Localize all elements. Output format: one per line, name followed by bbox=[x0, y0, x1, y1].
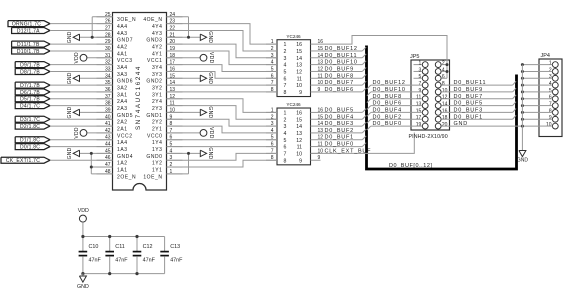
wire D5/1.7B to U1 bbox=[50, 98, 113, 100]
JP4 pin 2 bbox=[552, 69, 558, 75]
capacitor C11 bbox=[109, 237, 111, 252]
wire capacitor bottom rail bbox=[83, 273, 165, 275]
svg-text:2: 2 bbox=[271, 46, 274, 52]
RN2 pin 8 stub bbox=[266, 159, 277, 161]
svg-text:D0_BUF11: D0_BUF11 bbox=[325, 53, 358, 59]
wire VDD to capacitor rail bbox=[82, 222, 84, 236]
wire net D0_BUF2 from RN2 to bus bbox=[321, 132, 363, 134]
U1 pin 37 stub bbox=[97, 98, 113, 100]
svg-text:4A3: 4A3 bbox=[117, 31, 128, 37]
svg-text:D0_BUF8: D0_BUF8 bbox=[373, 94, 402, 100]
svg-text:D0_BUF6: D0_BUF6 bbox=[325, 87, 354, 93]
wire JP4 pin 9 to ground rail bbox=[522, 118, 539, 120]
wire ORNG/1.7C to U1 bbox=[50, 23, 113, 25]
RN1 pin 1 stub bbox=[266, 43, 277, 45]
U1 pin 32 stub bbox=[97, 64, 113, 66]
power VDD at U1 pin 42 bbox=[87, 132, 113, 134]
bus entry D0_BUF9 bbox=[513, 88, 517, 92]
svg-text:D10/1.7B: D10/1.7B bbox=[17, 49, 40, 55]
svg-text:1Y1: 1Y1 bbox=[152, 167, 163, 173]
capacitor C13 bbox=[164, 237, 166, 252]
svg-text:VDD: VDD bbox=[208, 127, 214, 139]
JP5 pin 2 bbox=[435, 62, 441, 68]
svg-text:D0_BUF10: D0_BUF10 bbox=[325, 60, 358, 66]
flag D5/1.7B bbox=[15, 96, 50, 102]
svg-text:2A4: 2A4 bbox=[117, 99, 128, 105]
JP5 pin 15 bbox=[422, 110, 428, 116]
U1 pin 35 stub bbox=[97, 84, 113, 86]
RN1 pin 4 stub bbox=[266, 64, 277, 66]
svg-text:4Y4: 4Y4 bbox=[152, 24, 163, 30]
U1 pin 40 stub bbox=[97, 118, 113, 120]
U1 pin 23 stub bbox=[167, 23, 183, 25]
svg-text:2: 2 bbox=[284, 49, 287, 55]
svg-text:16: 16 bbox=[296, 111, 302, 117]
node junction top rail C10 bbox=[81, 235, 84, 238]
svg-text:VDD: VDD bbox=[208, 52, 214, 64]
RN1 pin 2 stub bbox=[266, 50, 277, 52]
svg-text:47nF: 47nF bbox=[115, 257, 128, 263]
svg-text:GND1: GND1 bbox=[146, 113, 162, 119]
svg-text:JP5: JP5 bbox=[410, 54, 419, 60]
bus entry D0_BUF3 bbox=[513, 109, 517, 113]
svg-text:14: 14 bbox=[442, 101, 448, 107]
wire U1 pin 6 to RN2 pin 5 bbox=[167, 139, 278, 141]
svg-text:16: 16 bbox=[442, 108, 448, 114]
wire U1 pin 12 to RN2 pin 1 bbox=[167, 99, 278, 113]
svg-text:3Y4: 3Y4 bbox=[152, 65, 163, 71]
wire U1 pin 14 to RN1 pin 7 bbox=[167, 84, 278, 86]
wire GND to U1 pins 47 and 48 bbox=[90, 153, 92, 173]
svg-text:1: 1 bbox=[271, 39, 274, 45]
svg-text:1: 1 bbox=[284, 111, 287, 117]
svg-text:15: 15 bbox=[296, 117, 302, 123]
svg-text:8: 8 bbox=[271, 87, 274, 93]
JP5 pin 20 bbox=[435, 123, 441, 129]
RN1 pin 9 stub bbox=[311, 91, 321, 93]
wire U1 pin 17 to RN1 pin 5 bbox=[167, 65, 278, 72]
bus entry D0_BUF5 bbox=[513, 102, 517, 106]
flag D9/1.7B bbox=[15, 62, 50, 68]
svg-text:YC246: YC246 bbox=[286, 34, 301, 39]
svg-text:VDD: VDD bbox=[74, 52, 80, 64]
U1 pin 4 stub bbox=[167, 152, 183, 154]
JP4 pin 4 bbox=[552, 82, 558, 88]
JP4 pin 5 bbox=[552, 89, 558, 95]
wire net D0_BUF10 bus to JP5 pin 9 bbox=[371, 91, 422, 93]
bus entry D0_BUF9 bbox=[362, 68, 366, 72]
svg-text:12: 12 bbox=[296, 138, 302, 144]
svg-text:6: 6 bbox=[442, 74, 445, 80]
svg-text:GND4: GND4 bbox=[117, 154, 133, 160]
U1 pin 1 stub bbox=[167, 173, 183, 175]
JP5 pin 16 bbox=[435, 110, 441, 116]
svg-text:D9/1.7B: D9/1.7B bbox=[20, 63, 40, 69]
bus entry D0_BUF8 bbox=[362, 74, 366, 78]
wire U1 pin 3 to RN2 pin 7 bbox=[167, 153, 278, 160]
U1 pin 5 stub bbox=[167, 146, 183, 148]
svg-text:47nF: 47nF bbox=[170, 257, 183, 263]
svg-text:D0_BUF4: D0_BUF4 bbox=[325, 114, 354, 120]
capacitor C12 bbox=[136, 237, 138, 252]
RN1 pin 12 stub bbox=[311, 70, 321, 72]
JP5 pin 1 bbox=[422, 62, 428, 68]
wire D10/1.7B to U1 bbox=[50, 50, 113, 52]
svg-text:4: 4 bbox=[271, 128, 274, 134]
U1 pin 30 stub bbox=[97, 50, 113, 52]
wire JP4 pin 7 to ground rail bbox=[522, 105, 539, 107]
power VDD at U1 pin 7 bbox=[167, 132, 201, 134]
svg-text:D0_BUF4: D0_BUF4 bbox=[373, 107, 402, 113]
svg-text:GND: GND bbox=[67, 31, 73, 43]
svg-text:9: 9 bbox=[318, 87, 321, 93]
wire JP4 pin 4 to ground rail bbox=[522, 84, 539, 86]
wire net D0_BUF9 JP5 pin 10 to bus bbox=[441, 91, 512, 93]
JP4 pin 1 bbox=[552, 62, 558, 68]
wire JP4 ground rail bbox=[521, 65, 523, 151]
bus entry D0_BUF1 bbox=[362, 136, 366, 140]
wire net GND JP5 pin 20 to JP4 ground rail bbox=[441, 125, 522, 127]
JP5 pin 13 bbox=[422, 103, 428, 109]
RN2 pin 11 stub bbox=[311, 146, 321, 148]
svg-text:5: 5 bbox=[284, 138, 287, 144]
wire JP4 pin 3 to ground rail bbox=[522, 77, 539, 79]
node junction JP4 pin 1 bbox=[521, 63, 524, 66]
U1 pin 39 stub bbox=[97, 111, 113, 113]
flag D0/1.8C bbox=[15, 144, 50, 150]
svg-text:GND0: GND0 bbox=[146, 154, 162, 160]
svg-text:1: 1 bbox=[284, 42, 287, 48]
svg-text:3: 3 bbox=[271, 53, 274, 59]
wire D8/1.7B to U1 bbox=[50, 70, 113, 72]
U1 pin 15 stub bbox=[167, 77, 183, 79]
svg-text:VCC3: VCC3 bbox=[117, 58, 133, 64]
U1 pin 48 stub bbox=[97, 173, 113, 175]
U1 pin 18 stub bbox=[167, 57, 183, 59]
svg-text:8: 8 bbox=[549, 108, 552, 114]
svg-text:VCC0: VCC0 bbox=[147, 133, 163, 139]
flag D1/1.8C bbox=[15, 137, 50, 143]
svg-text:13: 13 bbox=[416, 101, 422, 107]
svg-text:GND: GND bbox=[207, 72, 213, 84]
wire D1/1.8C to U1 bbox=[50, 139, 113, 141]
bus exit D0_BUF4 bbox=[367, 112, 371, 116]
svg-text:1OE_N: 1OE_N bbox=[143, 174, 162, 180]
svg-text:2: 2 bbox=[549, 67, 552, 73]
svg-text:D11/1.7B: D11/1.7B bbox=[17, 42, 40, 48]
svg-text:D0_BUF1: D0_BUF1 bbox=[454, 114, 483, 120]
ground GND at U1 pin 39 bbox=[80, 111, 113, 113]
svg-text:14: 14 bbox=[296, 124, 302, 130]
RN1 pin 14 stub bbox=[311, 57, 321, 59]
wire net D0_BUF10 from RN1 to bus bbox=[321, 64, 363, 66]
svg-text:4A2: 4A2 bbox=[117, 45, 128, 51]
svg-text:VDD: VDD bbox=[78, 208, 89, 214]
power VDD at U1 pin 31 bbox=[87, 57, 113, 59]
svg-text:D0_BUF[0..12]: D0_BUF[0..12] bbox=[389, 163, 433, 169]
U1 pin 14 stub bbox=[167, 84, 183, 86]
flag D12/1.7A bbox=[12, 27, 50, 33]
svg-text:15: 15 bbox=[416, 108, 422, 114]
svg-text:9: 9 bbox=[318, 155, 321, 161]
svg-text:10: 10 bbox=[546, 122, 552, 128]
RN2 pin 3 stub bbox=[266, 125, 277, 127]
svg-text:2: 2 bbox=[271, 114, 274, 120]
svg-text:D0_BUF0: D0_BUF0 bbox=[325, 142, 354, 148]
resistor network RN1 YC246 body bbox=[277, 40, 311, 97]
svg-text:9: 9 bbox=[299, 158, 302, 164]
svg-text:1A1: 1A1 bbox=[117, 167, 128, 173]
wire net D0_BUF1 JP5 pin 18 to bus bbox=[441, 118, 512, 120]
ground GND at U1 pin 28 bbox=[80, 36, 113, 38]
svg-text:GND6: GND6 bbox=[117, 79, 133, 85]
RN2 pin 12 stub bbox=[311, 139, 321, 141]
svg-text:CK_EXT/1.7C: CK_EXT/1.7C bbox=[6, 158, 40, 164]
wire net D0_BUF0 from RN2 to bus bbox=[321, 146, 363, 148]
svg-text:GND: GND bbox=[207, 147, 213, 159]
svg-text:D8/1.7B: D8/1.7B bbox=[20, 69, 40, 75]
svg-text:11: 11 bbox=[416, 95, 421, 101]
wire D4/1.7C to U1 bbox=[50, 105, 113, 107]
U1 pin 16 stub bbox=[167, 70, 183, 72]
capacitor C10 bbox=[82, 237, 84, 252]
svg-text:D12/1.7A: D12/1.7A bbox=[17, 28, 40, 34]
wire net D0_BUF9 from RN1 to bus bbox=[321, 70, 363, 72]
node junction JP5 pin 4 tie bbox=[446, 70, 449, 73]
bus entry D0_BUF6 bbox=[362, 88, 366, 92]
svg-text:3Y1: 3Y1 bbox=[152, 92, 163, 98]
U1 pin 7 stub bbox=[167, 132, 183, 134]
node junction GND pin47 bbox=[90, 166, 93, 169]
svg-text:2Y2: 2Y2 bbox=[152, 120, 163, 126]
svg-text:4: 4 bbox=[549, 81, 552, 87]
wire net D0_BUF7 from RN1 to bus bbox=[321, 84, 363, 86]
JP5 pin 19 bbox=[422, 123, 428, 129]
wire U1 pin 19 to RN1 pin 4 bbox=[167, 51, 278, 65]
svg-text:JP4: JP4 bbox=[541, 53, 550, 59]
wire D0/1.8C to U1 bbox=[50, 146, 113, 148]
node junction top rail C11 bbox=[108, 235, 111, 238]
svg-text:3A2: 3A2 bbox=[117, 86, 128, 92]
JP4 pin 6 bbox=[552, 96, 558, 102]
RN2 pin 4 stub bbox=[266, 132, 277, 134]
bus entry D0_BUF4 bbox=[362, 115, 366, 119]
bus entry D0_BUF10 bbox=[362, 61, 366, 65]
svg-text:3: 3 bbox=[284, 124, 287, 130]
svg-text:4OE_N: 4OE_N bbox=[143, 17, 162, 23]
U1 pin 20 stub bbox=[167, 43, 183, 45]
svg-text:C11: C11 bbox=[115, 244, 125, 250]
wire JP4 pin 2 to ground rail bbox=[522, 70, 539, 72]
wire net D0_BUF6 from RN1 to bus bbox=[321, 91, 363, 93]
RN2 pin 6 stub bbox=[266, 146, 277, 148]
svg-text:ORNG/1.7C: ORNG/1.7C bbox=[12, 22, 41, 28]
svg-text:7: 7 bbox=[419, 81, 422, 87]
svg-text:D0/1.8C: D0/1.8C bbox=[20, 144, 40, 150]
JP5 pin 17 bbox=[422, 116, 428, 122]
JP5 pin 11 bbox=[422, 96, 428, 102]
wire net D0_BUF8 from RN1 to bus bbox=[321, 77, 363, 79]
U1 pin 2 stub bbox=[167, 166, 183, 168]
svg-text:2OE_N: 2OE_N bbox=[117, 174, 136, 180]
svg-text:3: 3 bbox=[549, 74, 552, 80]
svg-text:D0_BUF0: D0_BUF0 bbox=[373, 121, 402, 127]
RN2 pin 13 stub bbox=[311, 132, 321, 134]
node junction top rail C12 bbox=[135, 235, 138, 238]
bus entry D0_BUF12 bbox=[362, 47, 366, 51]
svg-text:D6/1.7B: D6/1.7B bbox=[20, 90, 40, 96]
wire net D0_BUF3 JP5 pin 16 to bus bbox=[441, 111, 512, 113]
RN2 pin 7 stub bbox=[266, 152, 277, 154]
wire U1 pin 24 to GND junction bbox=[167, 16, 189, 18]
ground GND at U1 pin 4 bbox=[167, 152, 201, 154]
svg-text:4: 4 bbox=[442, 67, 445, 73]
svg-text:2A1: 2A1 bbox=[117, 126, 128, 132]
node junction pin24/pin21 GND bbox=[187, 36, 190, 39]
power VDD at U1 pin 18 bbox=[167, 57, 201, 59]
svg-text:D0_BUF5: D0_BUF5 bbox=[454, 101, 483, 107]
svg-text:D0_BUF8: D0_BUF8 bbox=[325, 73, 354, 79]
U1 pin 3 stub bbox=[167, 159, 183, 161]
svg-text:D3/1.7C: D3/1.7C bbox=[20, 117, 40, 123]
svg-text:C12: C12 bbox=[143, 244, 153, 250]
svg-text:GND: GND bbox=[67, 72, 73, 84]
RN2 pin 14 stub bbox=[311, 125, 321, 127]
wire D7/1.7B to U1 bbox=[50, 84, 113, 86]
JP5 pin 8 bbox=[435, 82, 441, 88]
svg-text:C10: C10 bbox=[89, 244, 99, 250]
wire D9/1.7B to U1 bbox=[50, 64, 113, 66]
U1 pin 41 stub bbox=[97, 125, 113, 127]
svg-text:3OE_N: 3OE_N bbox=[117, 17, 136, 23]
U1 pin 45 stub bbox=[97, 152, 113, 154]
JP5 pin 3 bbox=[422, 69, 428, 75]
JP5 pin 10 bbox=[435, 89, 441, 95]
flag D2/1.8C bbox=[15, 123, 50, 129]
svg-text:GND: GND bbox=[207, 106, 213, 118]
wire U1 pin 16 to RN1 pin 6 bbox=[167, 71, 278, 78]
JP5 pin 12 bbox=[435, 96, 441, 102]
svg-text:D2/1.8C: D2/1.8C bbox=[20, 124, 40, 130]
U1 pin 10 stub bbox=[167, 111, 183, 113]
connector JP4 body bbox=[539, 59, 562, 137]
svg-text:13: 13 bbox=[296, 63, 302, 69]
node junction bottom rail C12 bbox=[135, 272, 138, 275]
svg-text:4A4: 4A4 bbox=[117, 24, 128, 30]
svg-text:D0_BUF10: D0_BUF10 bbox=[373, 87, 406, 93]
JP5 pin 5 bbox=[422, 75, 428, 81]
flag D4/1.7C bbox=[15, 103, 50, 109]
U1 pin 42 stub bbox=[97, 132, 113, 134]
svg-text:C13: C13 bbox=[170, 244, 180, 250]
wire net D0_BUF12 from RN1 to bus bbox=[321, 50, 363, 52]
svg-text:4A1: 4A1 bbox=[117, 51, 128, 57]
svg-text:D0_BUF9: D0_BUF9 bbox=[454, 87, 483, 93]
svg-text:7: 7 bbox=[271, 148, 274, 154]
svg-text:11: 11 bbox=[297, 76, 302, 82]
U1 pin 29 stub bbox=[97, 43, 113, 45]
wire net D0_BUF11 from RN1 to bus bbox=[321, 57, 363, 59]
svg-text:7: 7 bbox=[549, 101, 552, 107]
svg-text:11: 11 bbox=[297, 145, 302, 151]
wire D6/1.7B to U1 bbox=[50, 91, 113, 93]
svg-text:2: 2 bbox=[284, 117, 287, 123]
resistor network RN2 YC246 body bbox=[277, 108, 311, 165]
svg-text:47nF: 47nF bbox=[143, 257, 156, 263]
svg-text:9: 9 bbox=[549, 115, 552, 121]
RN2 pin 10 stub bbox=[311, 152, 321, 154]
svg-text:2A3: 2A3 bbox=[117, 106, 128, 112]
bus entry D0_BUF7 bbox=[513, 95, 517, 99]
RN1 pin 8 stub bbox=[266, 91, 277, 93]
wire JP4 pin 5 to ground rail bbox=[522, 91, 539, 93]
U1 pin 19 stub bbox=[167, 50, 183, 52]
wire net D0_BUF11 JP5 pin 8 to bus bbox=[441, 84, 512, 86]
svg-text:4: 4 bbox=[284, 63, 287, 69]
svg-text:5: 5 bbox=[271, 66, 274, 72]
U1 pin 11 stub bbox=[167, 105, 183, 107]
svg-text:GND: GND bbox=[67, 147, 73, 159]
U1 pin 36 stub bbox=[97, 91, 113, 93]
flag D10/1.7B bbox=[12, 48, 50, 54]
svg-text:3Y3: 3Y3 bbox=[152, 72, 163, 78]
svg-text:13: 13 bbox=[296, 131, 302, 137]
svg-text:D0_BUF11: D0_BUF11 bbox=[454, 80, 487, 86]
bus entry D0_BUF7 bbox=[362, 81, 366, 85]
U1 pin 27 stub bbox=[97, 29, 113, 31]
svg-text:4Y3: 4Y3 bbox=[152, 31, 163, 37]
U1 pin 13 stub bbox=[167, 91, 183, 93]
wire D2/1.8C to U1 bbox=[50, 125, 113, 127]
svg-text:5: 5 bbox=[549, 88, 552, 94]
svg-text:2: 2 bbox=[442, 61, 445, 67]
wire net D0_BUF0 bus to JP5 pin 19 bbox=[371, 125, 422, 127]
svg-text:5: 5 bbox=[419, 74, 422, 80]
wire capacitor top rail bbox=[83, 236, 165, 238]
RN1 pin 11 stub bbox=[311, 77, 321, 79]
node junction bottom rail C10 bbox=[81, 272, 84, 275]
wire U1 pin 5 to RN2 pin 6 bbox=[167, 146, 278, 148]
RN1 pin 13 stub bbox=[311, 64, 321, 66]
wire net from RN1 pin 16 to JP5 pins 2 4 6 bbox=[321, 36, 448, 79]
svg-text:6: 6 bbox=[271, 73, 274, 79]
svg-text:1: 1 bbox=[419, 61, 422, 67]
svg-text:4: 4 bbox=[284, 131, 287, 137]
flag D7/1.7B bbox=[15, 82, 50, 88]
svg-text:7: 7 bbox=[271, 80, 274, 86]
wire U1 pin 23 to RN1 pin 1 bbox=[167, 24, 278, 44]
bus D0_BUF[0..12] bbox=[367, 46, 517, 170]
wire U1 pin 20 to RN1 pin 3 bbox=[167, 44, 278, 58]
wire D12/1.7A to U1 bbox=[50, 29, 113, 31]
svg-text:18: 18 bbox=[442, 115, 448, 121]
svg-text:1A4: 1A4 bbox=[117, 140, 128, 146]
svg-text:8: 8 bbox=[284, 90, 287, 96]
svg-text:D0_BUF3: D0_BUF3 bbox=[325, 121, 354, 127]
svg-text:2A2: 2A2 bbox=[117, 120, 128, 126]
wire net D0_BUF4 from RN2 to bus bbox=[321, 118, 363, 120]
RN1 pin 6 stub bbox=[266, 77, 277, 79]
flag CK_EXT/1.7C bbox=[1, 157, 50, 163]
JP5 pin 7 bbox=[422, 82, 428, 88]
svg-text:SN74AUC16244: SN74AUC16244 bbox=[135, 65, 142, 130]
wire net D0_BUF7 JP5 pin 12 to bus bbox=[441, 98, 512, 100]
ground GND at U1 pin 21 bbox=[167, 36, 201, 38]
svg-text:PINHD-2X10/90: PINHD-2X10/90 bbox=[409, 134, 448, 140]
U1 pin 26 stub bbox=[97, 23, 113, 25]
U1 pin 46 stub bbox=[97, 159, 113, 161]
op-amp U1 IC SN74AUC16244 body bbox=[113, 13, 167, 191]
